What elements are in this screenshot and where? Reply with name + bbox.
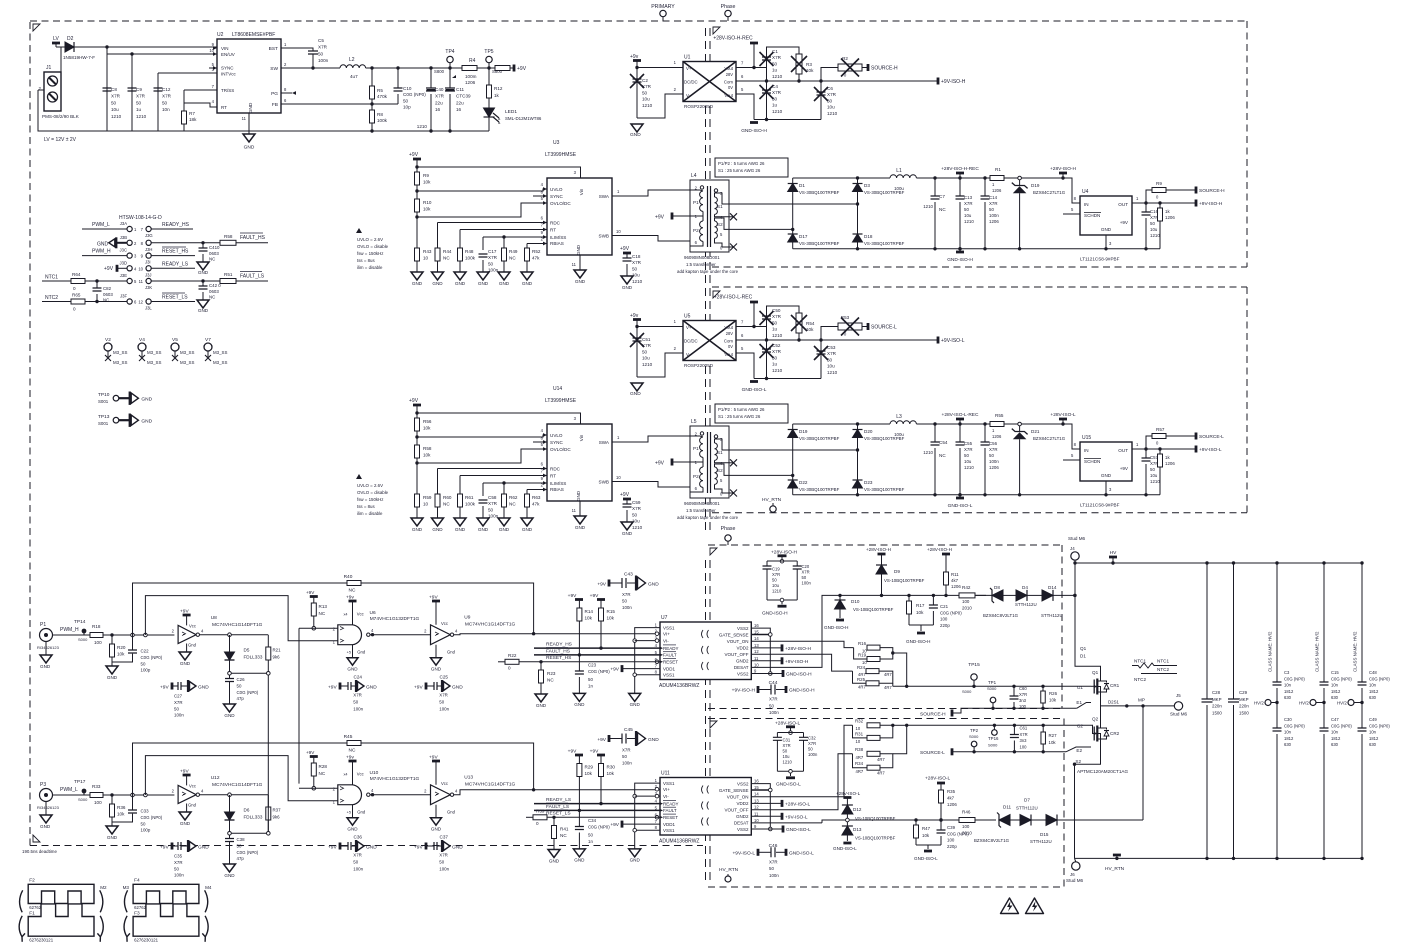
svg-text:220n: 220n [1212,704,1222,709]
svg-text:GND-ISO-L: GND-ISO-L [776,782,801,788]
svg-text:10u: 10u [772,583,780,588]
wire [1160,448,1196,450]
wire [1166,189,1196,191]
svg-text:GND: GND [244,145,255,151]
wire [940,783,942,790]
diode D3 [853,178,905,204]
svg-text:NC: NC [939,453,946,458]
svg-text:R33: R33 [92,784,101,789]
svg-text:10: 10 [616,229,621,234]
svg-text:tss = 8us: tss = 8us [357,258,375,263]
svg-text:220p: 220p [947,844,957,849]
wire [351,685,356,687]
X no-connect pin4 [729,459,737,466]
svg-text:GND: GND [198,844,209,850]
svg-text:1210: 1210 [417,124,428,129]
svg-text:S000: S000 [969,734,979,739]
svg-text:R63: R63 [532,495,541,500]
svg-text:R51: R51 [224,272,233,277]
svg-text:C55: C55 [964,441,973,446]
svg-text:X7R: X7R [439,853,448,858]
svg-text:RDC: RDC [550,221,561,226]
svg-text:GND: GND [522,281,533,286]
svg-text:16: 16 [435,107,441,112]
svg-text:TR/SS: TR/SS [221,88,234,93]
wire [1159,203,1161,208]
resistor R32 [855,719,880,732]
wire [1145,464,1147,495]
connector J1 [38,65,79,119]
net +9V-ISO-L GND2 [751,813,808,821]
svg-text:L5: L5 [691,419,697,425]
svg-text:HV/2: HV/2 [1337,701,1347,706]
wire [984,424,986,442]
svg-text:C47: C47 [1331,717,1339,722]
svg-text:1210: 1210 [783,760,793,765]
svg-text:R1: R1 [995,167,1001,172]
wire [426,845,434,847]
svg-text:100u: 100u [894,432,904,437]
resistor R47 [914,820,931,845]
svg-text:CLASS NAME: HV/2: CLASS NAME: HV/2 [1315,631,1320,672]
svg-text:SOURCE-L: SOURCE-L [1199,434,1224,440]
wire [622,823,660,825]
svg-text:100: 100 [962,599,970,604]
svg-text:Gnd: Gnd [447,810,456,815]
svg-text:+28V-ISO-L: +28V-ISO-L [785,801,811,807]
svg-text:RI34426123: RI34426123 [37,645,60,650]
net READY line [534,797,660,804]
wire [1142,706,1144,820]
svg-text:U2: U2 [217,32,224,38]
svg-text:SW: SW [270,66,278,72]
svg-text:TP17: TP17 [74,779,86,785]
testpoint TP13 [98,414,153,427]
svg-text:50: 50 [964,453,969,458]
wire [715,238,730,247]
svg-text:C20: C20 [802,564,810,569]
svg-text:D1: D1 [1080,654,1086,659]
svg-text:CLASS NAME: HV/2: CLASS NAME: HV/2 [1353,631,1358,672]
svg-text:SWA: SWA [599,440,610,445]
svg-text:10k: 10k [607,616,615,621]
svg-text:R30: R30 [607,765,616,770]
wire [477,67,495,69]
wire [417,167,581,178]
wire [229,835,231,838]
svg-text:50: 50 [642,90,648,95]
svg-text:1210: 1210 [827,370,838,375]
svg-text:R44: R44 [443,249,452,254]
diode D5 [225,635,263,675]
svg-text:R42: R42 [962,585,971,590]
svg-text:C0G (NP0): C0G (NP0) [403,92,426,97]
svg-text:Stud M6: Stud M6 [1170,712,1188,717]
svg-text:U14: U14 [553,386,562,392]
svg-text:100k: 100k [377,118,388,123]
svg-text:15: 15 [754,785,759,790]
svg-text:10u: 10u [827,105,835,110]
net READY_LS [151,261,195,268]
svg-text:X7R: X7R [136,94,146,99]
svg-text:GND: GND [630,391,641,397]
svg-text:TP5: TP5 [484,49,493,55]
svg-text:50: 50 [772,320,778,325]
wire [430,94,432,131]
svg-text:GND-ISO-H: GND-ISO-H [789,688,815,694]
capacitor C53 (DNI) [814,340,838,379]
testpoint HV_RTN row4 [762,497,782,512]
svg-text:C29: C29 [1239,690,1248,695]
ground [630,124,643,138]
svg-text:x4: x4 [343,773,347,777]
capacitor C26 [224,675,259,718]
wire [111,795,113,804]
svg-text:VS-30BQ100TRPBF: VS-30BQ100TRPBF [864,241,905,246]
wire [488,63,490,68]
svg-text:Vout: Vout [724,66,733,71]
svg-text:BZX84C27LT1G: BZX84C27LT1G [1033,436,1066,441]
svg-text:1500: 1500 [1239,710,1249,715]
svg-text:C6: C6 [827,86,833,91]
svg-text:R13: R13 [319,604,328,609]
wire [881,574,883,595]
svg-text:S000: S000 [78,797,88,802]
svg-text:1k: 1k [494,93,500,98]
wire [729,246,734,248]
svg-text:VSS2: VSS2 [737,626,749,631]
svg-text:fsw = 150kHz: fsw = 150kHz [357,251,383,256]
svg-text:R17: R17 [916,603,925,608]
svg-text:U5: U5 [684,314,691,320]
wire [798,333,800,340]
wire [839,595,841,600]
svg-text:10p: 10p [403,105,411,110]
wire [186,804,188,813]
svg-text:NC: NC [209,295,215,300]
wire [534,654,660,656]
svg-text:DC/DC: DC/DC [684,80,698,85]
svg-text:R2: R2 [842,56,848,61]
svg-text:NC: NC [349,748,356,754]
svg-text:ilim = disable: ilim = disable [357,511,383,516]
wire [945,554,947,572]
svg-text:100n: 100n [989,213,999,218]
svg-text:D17: D17 [799,234,808,239]
svg-text:190.5ns deadtime: 190.5ns deadtime [22,849,57,854]
svg-text:C410: C410 [209,245,220,250]
svg-text:GND: GND [522,527,533,532]
wire [267,675,269,831]
wire [430,68,432,88]
wire [715,464,730,475]
wire [132,53,217,55]
wire [612,436,690,442]
resistor R10 [415,199,432,248]
wire [767,47,800,68]
svg-text:6276230121: 6276230121 [134,938,159,943]
resistor R12 [487,68,503,108]
wire [1132,202,1160,204]
wire [993,725,995,729]
wire [934,178,936,196]
wire [454,790,660,795]
svg-text:47p: 47p [237,696,245,701]
gate driver U11 ADUM4136BRWZ [655,771,760,845]
svg-text:C28: C28 [1212,690,1221,695]
svg-text:L4: L4 [691,173,697,179]
capacitor C82 [93,281,114,303]
svg-text:U3: U3 [553,140,560,146]
wire [1159,221,1161,249]
svg-text:GND: GND [366,844,377,850]
wire [534,803,660,805]
wire [435,761,437,785]
svg-text:100n: 100n [353,866,363,871]
svg-text:CR1: CR1 [1110,683,1120,688]
net +9V mid-tap [655,213,690,221]
svg-text:50: 50 [642,349,648,354]
svg-text:R53: R53 [841,315,850,320]
resistor R58 [415,445,432,494]
capacitor C410 [197,243,220,275]
wire [792,178,794,229]
capacitor C35 [160,840,209,878]
svg-text:LT1121CS8-9#PBF: LT1121CS8-9#PBF [1080,503,1120,508]
wire [792,424,794,475]
svg-text:GND: GND [431,666,442,671]
diode D23 [853,450,905,495]
svg-text:Gnd: Gnd [357,650,366,655]
zener D11 [974,805,1020,844]
wire [435,805,437,818]
resistor R45 feedback [133,734,534,795]
svg-text:S000: S000 [962,689,972,694]
wire [1031,819,1046,821]
svg-text:C25: C25 [440,674,449,679]
svg-text:R31: R31 [855,732,864,737]
svg-text:GND: GND [622,531,633,536]
wire [460,475,547,477]
wire [627,582,636,584]
svg-text:+9V: +9V [655,215,665,221]
wire [1361,702,1363,704]
wire [519,661,660,663]
svg-text:C0G (NP0): C0G (NP0) [1369,723,1390,728]
svg-text:50: 50 [802,575,807,580]
net +28V-ISO-L-REC [714,295,758,327]
wire [482,260,484,272]
svg-text:R11: R11 [951,572,959,577]
net GND-ISO-H VSS2 [751,670,812,678]
svg-text:Vout: Vout [724,325,733,330]
svg-text:4R7: 4R7 [856,769,864,774]
wire [503,237,505,248]
wire [74,46,217,48]
wire [793,494,1160,496]
net +9V-ISO-L [938,337,965,345]
svg-text:READY_HS: READY_HS [162,222,190,228]
svg-text:RESET_LS: RESET_LS [546,811,571,817]
svg-text:J3J: J3J [145,272,152,277]
svg-text:50: 50 [769,866,774,871]
svg-text:GATE_SENSE: GATE_SENSE [719,788,749,793]
svg-text:S2: S2 [1075,759,1081,764]
svg-text:SOURCE-H: SOURCE-H [871,66,898,72]
svg-text:D9: D9 [894,569,900,574]
wire [736,94,754,120]
wire [236,242,268,244]
MOSFET Q1 [1077,670,1120,703]
svg-text:GND-ISO-H: GND-ISO-H [786,672,812,678]
wire [229,795,231,812]
wire [751,673,783,675]
svg-text:LT8608EMSE#PBF: LT8608EMSE#PBF [232,32,275,38]
svg-text:100: 100 [947,838,955,843]
resistor R16 [858,641,880,654]
svg-text:J5: J5 [1176,693,1181,698]
svg-text:GND-ISO-L: GND-ISO-L [789,850,814,856]
svg-text:P2: P2 [693,474,699,479]
svg-text:D7: D7 [1024,798,1030,803]
wire [361,583,534,634]
net SOURCE-H [868,64,898,72]
svg-text:HV_RTN: HV_RTN [719,867,739,873]
svg-text:GND: GND [455,527,466,532]
wire [729,228,793,230]
svg-text:1206: 1206 [1165,215,1175,220]
svg-text:READY: READY [663,646,679,651]
wire [267,820,269,833]
svg-text:J3L: J3L [145,306,152,311]
net +9V-ISO-H out [1160,200,1223,208]
svg-text:X7R: X7R [353,693,362,698]
wire [637,94,683,118]
svg-text:R36: R36 [117,805,126,810]
zener D19 BZX84C27LT1G [1012,176,1066,249]
wire [1145,218,1147,249]
svg-text:10k: 10k [922,833,930,838]
svg-text:M2: M2 [100,885,107,890]
capacitor C43 [597,572,659,611]
svg-text:R38: R38 [855,747,864,752]
svg-text:+28V-ISO-L: +28V-ISO-L [836,791,861,796]
svg-text:50: 50 [111,100,117,105]
svg-text:C36: C36 [354,834,363,839]
svg-text:1n: 1n [588,839,593,844]
svg-text:10n: 10n [1369,683,1377,688]
svg-text:1206: 1206 [1165,461,1175,466]
resistor R48 [454,248,476,286]
svg-text:GND: GND [574,858,585,863]
wire [1063,459,1080,461]
wire [909,624,933,626]
wire [417,413,581,424]
wire [370,634,431,636]
svg-text:TP16: TP16 [988,736,999,741]
svg-text:10: 10 [856,739,861,744]
svg-text:X7R: X7R [435,94,445,99]
svg-text:GND: GND [576,244,581,255]
svg-text:100n: 100n [769,710,779,715]
resistor R53 (DNI) [821,315,868,340]
wire [111,817,113,826]
svg-text:GND: GND [432,281,443,286]
wire [1145,203,1147,212]
wire [200,794,269,796]
svg-text:GND: GND [452,684,463,690]
svg-text:VSS2: VSS2 [737,827,749,832]
svg-text:+28V-ISO-H-REC: +28V-ISO-H-REC [713,36,753,42]
svg-text:C42 0: C42 0 [209,283,221,288]
resistor R43 [411,248,432,286]
svg-text:add kapton tape under the core: add kapton tape under the core [677,269,739,274]
svg-text:1210: 1210 [632,279,643,284]
svg-text:630: 630 [1369,742,1377,747]
capacitor C39 [937,820,970,849]
svg-text:S2: S2 [717,222,723,227]
svg-text:J1: J1 [46,65,52,71]
svg-text:D1: D1 [799,183,805,188]
wire [181,845,188,847]
wire [893,724,907,726]
svg-text:R28: R28 [319,764,328,769]
wire [437,685,442,687]
wire [526,261,528,272]
svg-text:V+: V+ [686,325,692,330]
wire [553,839,555,850]
wire [915,820,917,825]
wire [690,241,703,246]
svg-text:1:5 transformer: 1:5 transformer [686,508,716,513]
svg-text:NC: NC [443,502,450,507]
wire [751,641,853,647]
wire [352,601,354,625]
svg-text:C12: C12 [162,87,171,92]
svg-text:X7R: X7R [964,447,973,452]
svg-text:SCHDN: SCHDN [1084,213,1100,218]
net FAULT_LS + resistor R51 [151,272,268,284]
wire [1097,706,1100,728]
svg-text:50: 50 [141,661,146,666]
diode D12 [836,791,896,821]
svg-text:50: 50 [989,453,994,458]
svg-text:50: 50 [964,207,969,212]
wire [1019,424,1021,432]
wire [803,740,805,771]
svg-text:12: 12 [138,300,143,305]
wire [635,640,660,642]
capacitor C31 C32 pair [773,721,818,788]
svg-text:OVLO/DC: OVLO/DC [550,447,571,452]
svg-text:D22: D22 [799,480,808,485]
svg-text:VS-30BQ100TRPBF: VS-30BQ100TRPBF [799,190,840,195]
svg-text:R46: R46 [962,810,971,815]
wire [578,677,580,693]
svg-text:ADUM4136BRWZ: ADUM4136BRWZ [659,839,699,845]
svg-text:OUT: OUT [1118,448,1128,453]
svg-text:R57: R57 [1156,427,1165,432]
svg-text:10k: 10k [117,812,125,817]
inverter U9 MC74VHC1G14DFT1G [424,595,458,672]
wire [371,123,373,131]
wire [880,725,893,738]
svg-text:NC: NC [509,502,516,507]
svg-text:GND-ISO-H: GND-ISO-H [947,257,973,263]
svg-text:630: 630 [1331,695,1339,700]
resistor R23 [535,662,556,708]
svg-text:R14: R14 [585,609,594,614]
